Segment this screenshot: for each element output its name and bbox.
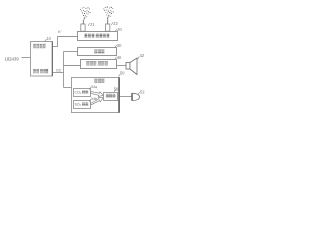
- svg-text:SO2: SO2: [75, 103, 82, 108]
- svg-text:20: 20: [117, 27, 122, 32]
- svg-text:56: 56: [114, 87, 119, 92]
- svg-text:42: 42: [140, 53, 145, 58]
- svg-text:54a: 54a: [91, 85, 97, 89]
- svg-text:40: 40: [117, 55, 122, 60]
- svg-text:DC: DC: [56, 68, 62, 72]
- svg-text:50: 50: [120, 71, 125, 76]
- svg-text:K′: K′: [58, 30, 61, 34]
- svg-text:30: 30: [117, 43, 122, 48]
- svg-text:52: 52: [140, 89, 145, 94]
- svg-text:CO2: CO2: [75, 91, 82, 96]
- svg-text:182439: 182439: [5, 56, 20, 61]
- svg-text:22: 22: [113, 21, 118, 26]
- svg-text:21: 21: [90, 22, 95, 27]
- svg-text:10: 10: [46, 36, 51, 41]
- svg-text:54b: 54b: [91, 97, 97, 101]
